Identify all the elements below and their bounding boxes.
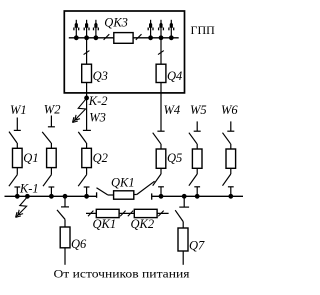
contact bar W2 <box>48 126 55 128</box>
breaker Q3 <box>82 64 92 82</box>
feeder arrow 3 <box>94 20 99 40</box>
wire <box>50 168 52 175</box>
tick W6 <box>230 187 232 197</box>
svg-text:W6: W6 <box>221 103 238 117</box>
svg-text:W4: W4 <box>164 103 181 117</box>
contact cap Q6 <box>61 206 69 208</box>
blade W2 upper <box>42 132 51 143</box>
wire W4 from box <box>160 83 162 132</box>
breaker Q2 <box>82 148 92 167</box>
node W2-bus <box>49 194 54 199</box>
blade W1 upper <box>9 132 17 143</box>
svg-text:K-1: K-1 <box>19 181 39 195</box>
wire W3 line from Q3 down <box>86 83 88 131</box>
blade W2 lower <box>43 175 51 187</box>
wire <box>196 144 198 149</box>
wire <box>182 251 184 265</box>
blade Q7 <box>175 210 183 221</box>
wire W6 stub <box>230 121 232 131</box>
node W3-bus <box>84 194 89 199</box>
svg-text:Q5: Q5 <box>167 151 182 165</box>
svg-text:Q3: Q3 <box>93 69 108 83</box>
breaker Q7 <box>178 228 188 251</box>
svg-text:Q1: Q1 <box>23 151 38 165</box>
wire bus to Q3 <box>86 38 88 64</box>
tick W4 <box>160 187 162 197</box>
svg-text:QK2: QK2 <box>131 217 155 231</box>
tick Q6 <box>64 196 66 207</box>
contact bar W5 <box>194 130 201 132</box>
breaker W5 <box>192 149 202 168</box>
blade QK1 right <box>137 181 155 194</box>
bypass line <box>86 212 169 214</box>
blade W6 lower <box>223 174 231 186</box>
svg-text:Q4: Q4 <box>167 69 182 83</box>
breaker W6 <box>226 149 236 168</box>
feeder W2 column <box>42 116 56 197</box>
contact cap W4 <box>158 186 164 188</box>
contact cap W2 <box>49 186 55 188</box>
blade Q6 <box>57 210 65 219</box>
blade W4 lower <box>153 174 161 186</box>
contact cap W3 <box>84 186 90 188</box>
in-box bus <box>69 37 179 39</box>
svg-text:Q7: Q7 <box>189 239 205 253</box>
feeder W5 column <box>189 121 202 196</box>
wire bus to Q4 <box>160 38 162 64</box>
blade W3 lower <box>78 175 86 187</box>
node Q7-bus <box>182 194 187 199</box>
feeder arrow 4 <box>148 20 153 40</box>
wire <box>160 168 162 174</box>
source branch Q6 <box>57 196 70 264</box>
contact bar W3 <box>83 129 91 131</box>
bus end bar right <box>151 193 153 199</box>
short-circuit arrow K-2 <box>73 98 87 122</box>
node W6-bus <box>228 194 233 199</box>
feeder arrow 5 <box>159 20 164 40</box>
wire <box>230 168 232 174</box>
blade W1 lower <box>9 175 17 187</box>
feeder W1 column <box>9 118 22 197</box>
svg-text:K-2: K-2 <box>88 94 108 108</box>
blade W6 upper <box>223 133 231 144</box>
svg-text:ГПП: ГПП <box>191 23 216 37</box>
wire <box>182 222 184 228</box>
blade W4 upper <box>153 133 161 144</box>
switch slash QK3 left <box>104 34 110 40</box>
contact cap W5 <box>194 186 200 188</box>
switch slash QK3 right <box>136 34 142 40</box>
feeder W4 column <box>153 83 166 197</box>
contact cap W6 <box>228 186 234 188</box>
wire <box>196 168 198 174</box>
short-circuit arrow K-1 <box>16 197 28 218</box>
svg-text:QK1: QK1 <box>93 217 117 231</box>
switch slash bypass 2 <box>120 211 125 217</box>
svg-text:QK1: QK1 <box>111 176 135 190</box>
svg-text:Q2: Q2 <box>93 151 108 165</box>
wire <box>134 194 137 196</box>
breaker Q5 <box>156 149 166 168</box>
wire <box>64 248 66 265</box>
switch slash bypass 4 <box>158 211 163 217</box>
switch slash bypass 1 <box>88 211 93 217</box>
substation box GPP <box>64 11 184 93</box>
switch slash Q3 <box>84 51 90 55</box>
blade W5 upper <box>189 133 197 144</box>
node W4-bus <box>159 194 164 199</box>
breaker Q4 <box>156 64 166 82</box>
wire <box>230 144 232 149</box>
breaker Q1 <box>13 148 23 167</box>
reactor QK1 bypass <box>96 209 119 217</box>
wire W1 stub <box>16 118 18 131</box>
sectionalizer QK1 <box>114 191 134 199</box>
feeder arrow 1 <box>74 20 79 40</box>
contact bar W6 <box>227 130 234 132</box>
wire <box>16 143 18 148</box>
tick W2 <box>50 187 52 196</box>
feeder arrow 2 <box>84 20 89 40</box>
breaker W2 <box>47 148 57 167</box>
node K-2 <box>84 96 89 101</box>
tick Q7 <box>183 196 185 207</box>
bus end bar left <box>96 192 98 198</box>
svg-text:QK3: QK3 <box>104 15 128 29</box>
main bus right segment <box>152 195 243 197</box>
node W5-bus <box>195 194 200 199</box>
tick W5 <box>196 187 198 197</box>
wire <box>86 168 88 175</box>
svg-text:W5: W5 <box>190 103 207 117</box>
wire <box>16 168 18 175</box>
wire <box>160 144 162 149</box>
contact cap W1 <box>14 186 20 188</box>
node W1-bus <box>15 194 20 199</box>
contact bar W1 <box>14 129 21 131</box>
svg-text:W2: W2 <box>44 102 61 116</box>
svg-text:Q6: Q6 <box>71 237 87 251</box>
wire <box>108 194 114 196</box>
wire <box>50 143 52 148</box>
wire W5 stub <box>196 121 198 131</box>
node K-1 <box>25 194 30 199</box>
switch slash Q4 <box>158 51 164 55</box>
tick W1 <box>16 187 18 196</box>
main bus left segment <box>5 195 97 197</box>
blade W3 upper <box>78 132 86 143</box>
wire W2 stub <box>50 116 52 127</box>
contact cap Q7 <box>179 206 189 208</box>
blade W5 lower <box>189 174 197 186</box>
source branch Q7 <box>175 196 189 264</box>
breaker Q6 <box>60 227 70 248</box>
contact bar W4 <box>157 130 164 132</box>
svg-text:W1: W1 <box>10 103 27 117</box>
node Q6-bus <box>63 194 68 199</box>
feeder W3 column lower part <box>78 130 91 196</box>
tick W3 <box>86 187 88 196</box>
wire <box>64 219 66 227</box>
reactor QK2 bypass <box>134 209 157 217</box>
wire <box>86 143 88 148</box>
feeder W6 column <box>223 121 236 196</box>
feeder arrow 6 <box>169 20 174 40</box>
sectionalizer QK3 <box>114 33 133 44</box>
blade QK1 left <box>97 188 108 195</box>
switch slash bypass 3 <box>128 211 133 217</box>
svg-text:От источников питания: От источников питания <box>54 266 191 280</box>
svg-text:W3: W3 <box>89 110 106 124</box>
